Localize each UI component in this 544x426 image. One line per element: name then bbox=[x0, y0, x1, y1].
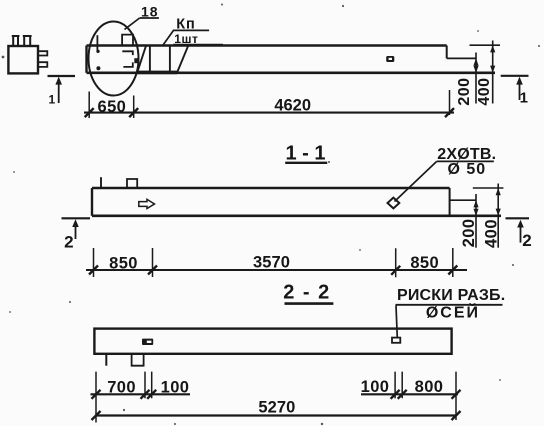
svg-text:3570: 3570 bbox=[253, 253, 290, 271]
svg-text:Кп: Кп bbox=[176, 17, 196, 33]
svg-text:100: 100 bbox=[161, 379, 190, 397]
svg-text:400: 400 bbox=[482, 219, 500, 248]
svg-text:100: 100 bbox=[361, 378, 390, 396]
svg-text:4620: 4620 bbox=[274, 97, 311, 115]
svg-text:РИСКИ РАЗБ.: РИСКИ РАЗБ. bbox=[397, 287, 505, 304]
svg-text:200: 200 bbox=[456, 77, 473, 105]
svg-text:2: 2 bbox=[522, 231, 531, 250]
svg-text:1шт: 1шт bbox=[174, 32, 198, 46]
svg-text:5270: 5270 bbox=[258, 398, 295, 416]
svg-text:650: 650 bbox=[98, 98, 127, 116]
svg-text:1 - 1: 1 - 1 bbox=[285, 143, 325, 165]
svg-text:800: 800 bbox=[415, 378, 444, 396]
svg-text:2 - 2: 2 - 2 bbox=[283, 281, 331, 303]
svg-text:850: 850 bbox=[410, 254, 439, 272]
svg-text:850: 850 bbox=[109, 255, 138, 273]
svg-text:400: 400 bbox=[476, 77, 493, 105]
svg-text:700: 700 bbox=[107, 379, 136, 397]
svg-text:1: 1 bbox=[48, 93, 55, 107]
svg-text:200: 200 bbox=[460, 218, 478, 247]
svg-text:1: 1 bbox=[520, 90, 528, 107]
svg-text:2: 2 bbox=[64, 232, 73, 251]
svg-text:ØСЕЙ: ØСЕЙ bbox=[426, 302, 480, 321]
svg-text:18: 18 bbox=[141, 4, 159, 20]
svg-text:Ø 50: Ø 50 bbox=[447, 161, 486, 178]
